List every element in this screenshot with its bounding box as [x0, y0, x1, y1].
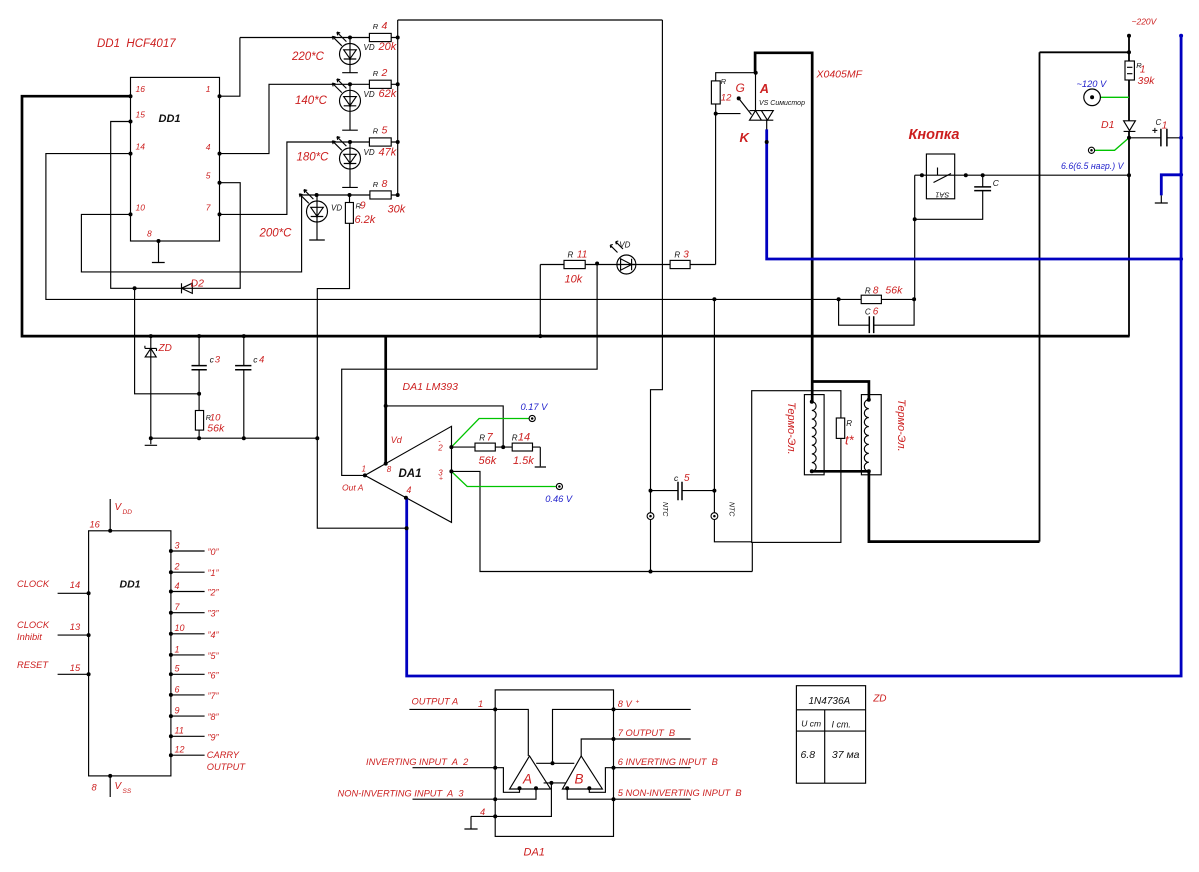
svg-text:c: c — [253, 355, 258, 365]
svg-text:X0405MF: X0405MF — [816, 69, 863, 81]
svg-text:11: 11 — [175, 726, 184, 736]
svg-text:6.2k: 6.2k — [355, 214, 376, 226]
svg-text:RESET: RESET — [17, 660, 49, 670]
svg-text:5: 5 — [206, 171, 211, 181]
svg-text:”1”: ”1” — [208, 568, 220, 578]
svg-text:R: R — [865, 287, 871, 296]
svg-text:56k: 56k — [885, 285, 903, 297]
svg-text:6.6(6.5 нагр.) V: 6.6(6.5 нагр.) V — [1061, 161, 1125, 171]
svg-text:6.8: 6.8 — [801, 749, 816, 761]
svg-text:37 ма: 37 ма — [832, 749, 860, 761]
svg-text:U ст: U ст — [801, 719, 821, 729]
svg-text:~120 V: ~120 V — [1077, 79, 1108, 89]
svg-text:”2”: ”2” — [208, 588, 220, 598]
svg-text:2: 2 — [174, 562, 180, 572]
svg-text:R: R — [479, 433, 485, 442]
svg-text:B: B — [575, 772, 584, 787]
svg-text:”6”: ”6” — [208, 670, 220, 680]
svg-text:1: 1 — [206, 84, 211, 94]
svg-text:16: 16 — [136, 84, 146, 94]
svg-text:10k: 10k — [565, 273, 583, 285]
svg-text:4: 4 — [406, 485, 411, 495]
svg-text:15: 15 — [70, 663, 81, 673]
svg-text:62k: 62k — [379, 88, 397, 100]
svg-text:8: 8 — [387, 465, 392, 474]
svg-text:DD: DD — [123, 509, 133, 516]
svg-text:39k: 39k — [1138, 75, 1156, 87]
svg-text:R: R — [721, 77, 727, 86]
svg-text:1: 1 — [478, 699, 483, 709]
svg-text:180*C: 180*C — [297, 152, 330, 164]
svg-text:8: 8 — [147, 229, 152, 239]
svg-text:+: + — [636, 699, 640, 706]
svg-text:”5”: ”5” — [208, 651, 220, 661]
svg-text:1.5k: 1.5k — [513, 455, 534, 467]
svg-text:2: 2 — [381, 67, 388, 79]
svg-text:3: 3 — [175, 540, 180, 550]
svg-text:14: 14 — [70, 580, 80, 590]
svg-text:4: 4 — [259, 355, 264, 366]
svg-text:DA1 LM393: DA1 LM393 — [403, 381, 459, 393]
svg-text:R: R — [373, 22, 379, 31]
svg-text:16: 16 — [90, 520, 101, 530]
svg-text:NTC: NTC — [728, 502, 735, 517]
svg-text:+: + — [439, 476, 443, 483]
svg-text:5: 5 — [684, 473, 690, 484]
svg-text:DD1: DD1 — [159, 113, 181, 125]
svg-text:9: 9 — [175, 706, 180, 716]
svg-text:0.46 V: 0.46 V — [545, 494, 573, 504]
svg-text:ZD: ZD — [872, 694, 886, 705]
svg-text:DA1: DA1 — [524, 847, 545, 859]
svg-text:20k: 20k — [378, 41, 397, 53]
svg-text:8 V: 8 V — [618, 699, 633, 709]
svg-text:A: A — [522, 772, 532, 787]
svg-text:ZD: ZD — [158, 343, 172, 354]
svg-text:8: 8 — [873, 286, 879, 297]
svg-text:13: 13 — [70, 622, 81, 632]
svg-text:R: R — [512, 433, 518, 442]
svg-text:VD: VD — [619, 241, 630, 250]
svg-text:OUTPUT: OUTPUT — [207, 762, 247, 772]
svg-text:15: 15 — [136, 110, 146, 120]
svg-text:3: 3 — [215, 355, 221, 366]
svg-text:4: 4 — [382, 20, 388, 32]
svg-text:VD: VD — [364, 43, 375, 52]
svg-text:Out A: Out A — [342, 482, 364, 492]
svg-text:C: C — [865, 308, 871, 317]
svg-text:6: 6 — [873, 307, 879, 318]
svg-text:CLOCK: CLOCK — [17, 620, 50, 630]
svg-text:K: K — [740, 130, 751, 145]
svg-text:I ст.: I ст. — [832, 720, 851, 730]
svg-text:”8”: ”8” — [208, 712, 220, 722]
svg-text:D2: D2 — [191, 277, 205, 289]
svg-text:+: + — [1152, 126, 1158, 137]
svg-text:”9”: ”9” — [208, 732, 220, 742]
svg-text:R: R — [846, 419, 852, 428]
svg-text:C: C — [993, 178, 1000, 188]
svg-text:3: 3 — [683, 250, 689, 261]
svg-text:VD: VD — [331, 204, 342, 213]
svg-text:SA1: SA1 — [935, 191, 949, 200]
svg-text:Inhibit: Inhibit — [17, 632, 42, 642]
svg-text:0.17 V: 0.17 V — [521, 402, 549, 412]
svg-text:56k: 56k — [207, 423, 225, 435]
svg-text:DD1: DD1 — [120, 579, 141, 591]
svg-text:R: R — [356, 202, 362, 211]
svg-text:R: R — [206, 415, 211, 422]
svg-text:7: 7 — [206, 203, 211, 213]
svg-text:Термо-Эл.: Термо-Эл. — [895, 399, 907, 452]
svg-text:6 INVERTING INPUT B: 6 INVERTING INPUT B — [618, 757, 718, 767]
svg-text:A: A — [759, 82, 769, 96]
svg-text:t*: t* — [845, 433, 855, 448]
svg-text:R: R — [373, 180, 379, 189]
svg-text:4: 4 — [206, 142, 211, 152]
svg-text:1: 1 — [1162, 120, 1168, 131]
svg-text:SS: SS — [123, 788, 132, 795]
svg-text:VS Симистор: VS Симистор — [759, 100, 805, 107]
svg-text:14: 14 — [136, 142, 146, 152]
svg-text:12: 12 — [175, 745, 185, 755]
svg-text:1N4736A: 1N4736A — [809, 696, 851, 707]
svg-text:11: 11 — [577, 250, 587, 261]
svg-text:CARRY: CARRY — [207, 750, 240, 760]
svg-text:Кнопка: Кнопка — [909, 127, 960, 143]
svg-text:4: 4 — [480, 807, 485, 817]
svg-text:10: 10 — [136, 203, 146, 213]
svg-text:~220V: ~220V — [1132, 17, 1158, 27]
svg-text:DA1: DA1 — [399, 468, 422, 480]
svg-text:DD1 HCF4017: DD1 HCF4017 — [97, 38, 176, 50]
svg-text:VD: VD — [364, 90, 375, 99]
svg-text:220*C: 220*C — [291, 51, 325, 63]
svg-text:8: 8 — [382, 178, 388, 190]
svg-text:Vd: Vd — [391, 435, 403, 445]
svg-text:NON-INVERTING INPUT A 3: NON-INVERTING INPUT A 3 — [338, 788, 465, 798]
svg-text:1: 1 — [362, 464, 366, 473]
svg-text:R: R — [373, 69, 379, 78]
svg-text:8: 8 — [92, 783, 98, 793]
svg-text:7: 7 — [487, 431, 494, 443]
svg-text:1: 1 — [175, 644, 180, 654]
svg-text:R: R — [373, 126, 379, 135]
svg-text:”4”: ”4” — [208, 630, 220, 640]
svg-text:6: 6 — [175, 684, 180, 694]
svg-text:R: R — [1136, 61, 1142, 70]
svg-text:R: R — [568, 251, 574, 260]
svg-text:4: 4 — [175, 581, 180, 591]
svg-text:D1: D1 — [1101, 119, 1114, 131]
svg-text:14: 14 — [518, 431, 530, 443]
svg-text:INVERTING INPUT A 2: INVERTING INPUT A 2 — [366, 757, 469, 767]
svg-text:12: 12 — [721, 92, 732, 103]
svg-text:30k: 30k — [388, 203, 406, 215]
svg-text:”0”: ”0” — [208, 547, 220, 557]
svg-text:VD: VD — [364, 148, 375, 157]
svg-text:”3”: ”3” — [208, 609, 220, 619]
svg-text:140*C: 140*C — [295, 95, 328, 107]
svg-text:10: 10 — [175, 623, 185, 633]
svg-text:Термо-Эл.: Термо-Эл. — [785, 402, 797, 455]
svg-text:CLOCK: CLOCK — [17, 579, 50, 589]
svg-text:G: G — [736, 81, 745, 95]
svg-text:R: R — [674, 251, 680, 260]
svg-text:NTC: NTC — [661, 502, 668, 517]
svg-text:5: 5 — [382, 124, 388, 136]
svg-text:5 NON-INVERTING INPUT B: 5 NON-INVERTING INPUT B — [618, 788, 742, 798]
svg-text:200*C: 200*C — [259, 228, 293, 240]
svg-text:47k: 47k — [379, 147, 397, 159]
svg-text:c: c — [210, 355, 215, 365]
svg-text:OUTPUT A: OUTPUT A — [412, 697, 459, 707]
svg-text:7 OUTPUT B: 7 OUTPUT B — [618, 728, 675, 738]
svg-text:”7”: ”7” — [208, 691, 220, 701]
svg-text:56k: 56k — [479, 455, 497, 467]
